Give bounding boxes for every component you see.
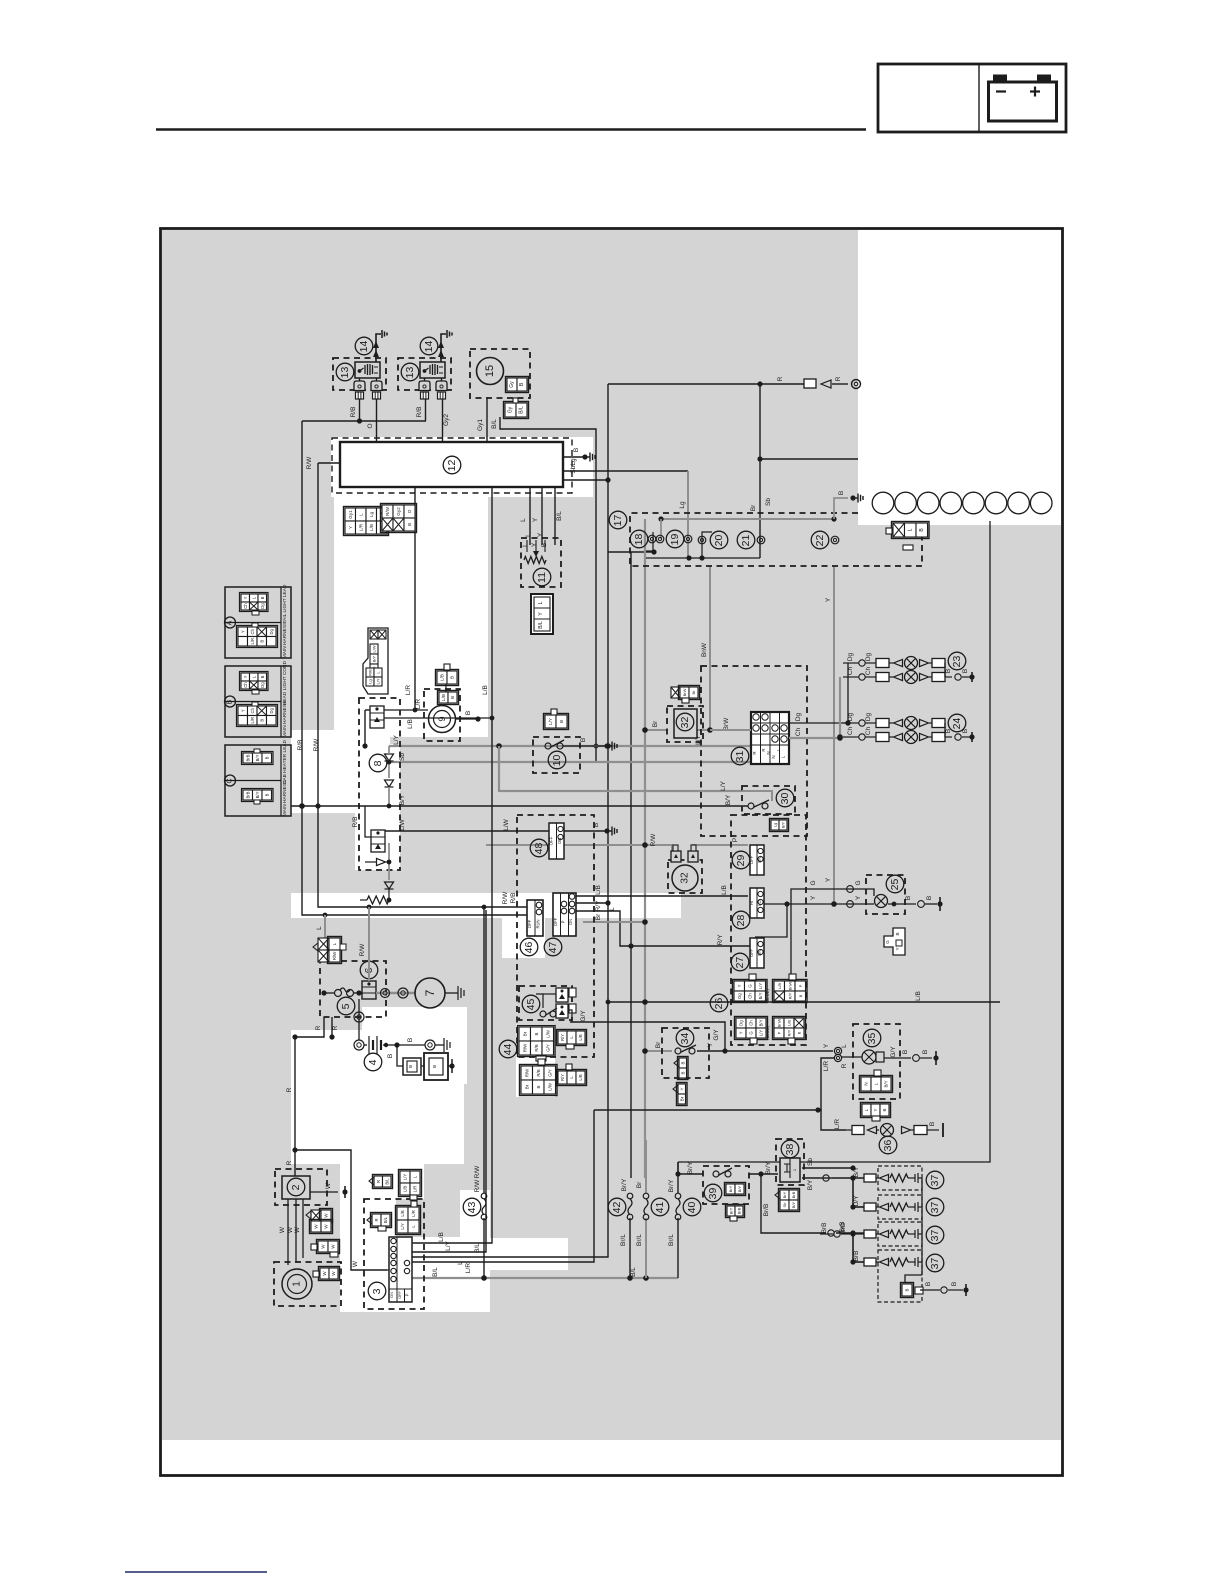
svg-text:36: 36: [882, 1140, 894, 1152]
svg-text:Ch: Ch: [243, 682, 248, 688]
svg-text:L: L: [520, 518, 527, 522]
svg-text:42: 42: [611, 1202, 623, 1214]
svg-text:B/L: B/L: [630, 1267, 637, 1277]
svg-text:Dg: Dg: [269, 628, 274, 634]
sidestand switch 10: [533, 737, 580, 773]
svg-text:W: W: [287, 1226, 294, 1233]
svg-text:L/W: L/W: [545, 1029, 550, 1038]
svg-text:R: R: [286, 1087, 293, 1092]
svg-text:B: B: [407, 1038, 414, 1042]
svg-text:L: L: [457, 1261, 464, 1265]
svg-text:B: B: [925, 1282, 932, 1286]
wire B/L gray bottom bus: [412, 1277, 678, 1279]
svg-text:L/R: L/R: [358, 523, 363, 531]
svg-text:Br: Br: [595, 913, 602, 920]
svg-text:Y: Y: [537, 532, 544, 537]
svg-text:L/Y: L/Y: [758, 983, 763, 989]
svg-text:G: G: [885, 940, 890, 944]
svg-text:L: L: [358, 513, 363, 516]
svg-text:Br: Br: [750, 504, 757, 511]
relay 8 wires to 9: [384, 709, 428, 711]
white cutout left column (R wire): [291, 1030, 396, 1164]
svg-text:O: O: [407, 509, 412, 513]
svg-text:Gy2: Gy2: [443, 414, 450, 426]
relay 8 diode low: [377, 858, 386, 865]
svg-text:Br: Br: [636, 1181, 643, 1188]
svg-text:37: 37: [929, 1258, 941, 1270]
wire battery B down right side: [759, 384, 761, 459]
svg-text:Y: Y: [855, 895, 862, 900]
svg-text:7: 7: [423, 989, 437, 996]
main switch grid: [389, 1237, 412, 1302]
svg-text:B: B: [797, 1031, 802, 1034]
white patch behind switch 46: [502, 893, 545, 958]
main switch 3: [364, 1199, 424, 1309]
svg-text:Br: Br: [679, 1096, 684, 1101]
svg-text:L/B: L/B: [578, 1074, 583, 1080]
wire G/Y lighting: [570, 1022, 725, 1051]
svg-text:R: R: [761, 748, 766, 751]
svg-text:L: L: [538, 601, 544, 604]
svg-text:B/L: B/L: [491, 419, 498, 429]
svg-text:Ch: Ch: [243, 603, 248, 609]
wire L/W bus: [375, 830, 549, 832]
svg-text:P: P: [405, 1293, 410, 1296]
svg-text:BrW: BrW: [682, 688, 687, 696]
svg-text:ON: ON: [568, 919, 573, 925]
svg-text:B/L: B/L: [384, 1178, 389, 1185]
turn signal grounds: [945, 676, 952, 678]
wire ECU right pin B: [563, 456, 585, 458]
wire ECU right pin Lg: [563, 470, 688, 472]
svg-text:25: 25: [889, 879, 901, 891]
svg-text:Dg: Dg: [865, 652, 872, 661]
svg-text:15: 15: [484, 365, 496, 377]
main harness connector small below 44: [558, 1071, 567, 1084]
svg-text:30: 30: [779, 793, 791, 805]
meter assembly dashed box 31: [701, 666, 807, 836]
wire 17 internal gray: [661, 518, 834, 520]
svg-text:B: B: [259, 719, 264, 722]
svg-text:OFF: OFF: [749, 948, 754, 957]
svg-text:27: 27: [734, 957, 746, 969]
svg-text:L/W: L/W: [547, 1082, 552, 1091]
wire switch34 row: [645, 1050, 672, 1052]
svg-text:37: 37: [929, 1230, 941, 1242]
svg-text:Br: Br: [691, 690, 696, 695]
magneto 1: [274, 1262, 341, 1306]
wire R/B vertical left: [301, 421, 303, 806]
headlight row 37b: [853, 1206, 864, 1208]
svg-text:R/B: R/B: [352, 817, 359, 828]
svg-text:R/Y: R/Y: [717, 934, 724, 946]
fuse 41: [651, 1198, 669, 1216]
wire ECU left pin R/W: [318, 462, 340, 464]
svg-text:11: 11: [536, 572, 548, 583]
wire horizontal top R/B feed: [302, 420, 426, 422]
svg-text:N: N: [766, 751, 771, 754]
battery legend box: [878, 64, 1066, 132]
spark plug 14 (right): [441, 334, 446, 362]
svg-text:B: B: [227, 699, 234, 704]
svg-text:Ch: Ch: [865, 726, 872, 735]
svg-text:L/B: L/B: [595, 885, 602, 895]
svg-text:Y: Y: [825, 597, 832, 602]
horn switch 27: [731, 953, 749, 971]
svg-text:OFF: OFF: [553, 917, 558, 926]
svg-text:Y: Y: [679, 1087, 684, 1090]
wire Lg down to relay box: [687, 471, 689, 558]
svg-text:B: B: [580, 738, 587, 742]
starter relay 9: [424, 689, 460, 741]
svg-text:L: L: [525, 533, 532, 537]
svg-text:G: G: [810, 880, 817, 885]
svg-text:32: 32: [679, 717, 691, 729]
wire ECU right pin Sb: [563, 479, 608, 481]
svg-text:L/Y: L/Y: [400, 1223, 405, 1229]
svg-text:B/Y: B/Y: [853, 1166, 860, 1177]
svg-text:L/R: L/R: [250, 638, 255, 645]
svg-text:L: L: [841, 1044, 848, 1048]
svg-text:R/B: R/B: [536, 1069, 541, 1076]
svg-text:W: W: [294, 1226, 301, 1233]
svg-text:Br/Y: Br/Y: [621, 1178, 628, 1191]
row of condition circles (legend): [872, 492, 894, 514]
svg-text:BrB: BrB: [821, 1223, 828, 1234]
svg-text:HI: HI: [749, 901, 754, 905]
svg-text:L/B: L/B: [721, 885, 728, 895]
tall connector stack (headlight coupler): [363, 628, 388, 694]
svg-text:35: 35: [866, 1033, 878, 1045]
meter connector grid: [751, 712, 789, 764]
svg-text:37: 37: [929, 1175, 941, 1187]
lighting switch 47: [544, 938, 562, 956]
svg-text:G/Y: G/Y: [890, 1046, 897, 1058]
wire vertical gray bus x645: [644, 519, 646, 1178]
wire R/W vertical left: [317, 463, 319, 806]
svg-text:B/Y: B/Y: [255, 791, 260, 798]
svg-text:B/Y: B/Y: [791, 1201, 796, 1208]
svg-text:BrY: BrY: [782, 1191, 787, 1198]
svg-text:P: P: [798, 984, 803, 987]
relay 20: [698, 536, 706, 544]
wire L/W switch48 to B: [564, 830, 607, 832]
connector above relay 32: [671, 687, 680, 698]
svg-text:B: B: [559, 720, 564, 723]
relay 8 diode top: [385, 754, 394, 761]
svg-text:(BLUE): (BLUE): [765, 989, 770, 1003]
svg-text:L/Y: L/Y: [720, 780, 727, 790]
connector below 30: [771, 820, 779, 830]
svg-text:29: 29: [735, 855, 747, 867]
svg-text:Br/Y: Br/Y: [765, 1161, 772, 1174]
svg-text:L: L: [522, 543, 529, 547]
svg-text:B: B: [680, 1071, 685, 1074]
svg-text:B/Y: B/Y: [758, 992, 763, 999]
svg-text:W: W: [325, 1182, 332, 1189]
svg-text:L/Y: L/Y: [393, 734, 400, 744]
svg-text:17: 17: [612, 515, 624, 527]
svg-text:L: L: [609, 907, 616, 911]
dimmer switch 28: [732, 911, 750, 929]
svg-text:B: B: [450, 676, 455, 679]
wire R/W horn feed: [486, 845, 672, 851]
relay 6 to motor wire: [376, 992, 415, 994]
svg-text:B: B: [962, 669, 969, 673]
svg-text:Y: Y: [895, 947, 900, 950]
meter light unit 35: [853, 1024, 900, 1099]
svg-text:OFF: OFF: [549, 836, 554, 845]
L riser to X connector: [324, 915, 326, 938]
svg-text:BrW: BrW: [723, 717, 730, 731]
svg-text:Sb: Sb: [765, 498, 772, 506]
svg-text:Y: Y: [538, 612, 544, 616]
svg-text:8: 8: [372, 760, 384, 766]
svg-text:Ch: Ch: [795, 727, 802, 736]
svg-text:G/Y: G/Y: [547, 1069, 552, 1077]
svg-text:R: R: [777, 376, 784, 381]
svg-text:BrB: BrB: [245, 791, 250, 798]
svg-text:B/Y: B/Y: [372, 655, 377, 662]
svg-text:B/Y: B/Y: [737, 1185, 742, 1192]
svg-text:B: B: [945, 669, 952, 673]
connector 2x2 above 3: [397, 1207, 408, 1220]
white band under harness wires: [291, 893, 681, 918]
svg-text:B/L: B/L: [474, 1243, 481, 1253]
wire L/Y branch to meter: [499, 746, 742, 791]
svg-text:B: B: [882, 1108, 887, 1111]
svg-text:B: B: [264, 756, 269, 759]
spark plug 14 (left): [376, 334, 381, 362]
svg-text:Y: Y: [348, 526, 353, 529]
main diagram border: [161, 229, 1063, 1476]
svg-text:R/W: R/W: [359, 943, 366, 957]
turn signal right 23: [948, 652, 966, 670]
wire R magneto riser: [294, 1037, 296, 1150]
white cutout fuse 43 band: [460, 1190, 490, 1242]
wire Br relay32 row: [645, 729, 668, 731]
svg-text:Y: Y: [240, 630, 245, 633]
svg-text:L/W: L/W: [372, 645, 377, 652]
svg-text:B: B: [945, 729, 952, 733]
svg-text:2: 2: [290, 1184, 302, 1190]
main fuse holder: [397, 1045, 403, 1066]
harness connector group B (head light cord): [225, 666, 291, 737]
relay 19: [666, 530, 684, 548]
svg-text:B/Y: B/Y: [807, 1179, 814, 1190]
connector block under ECU left: [345, 508, 356, 521]
svg-text:Sb: Sb: [782, 1202, 787, 1208]
svg-text:B: B: [541, 543, 548, 547]
horn 32: [668, 860, 702, 893]
svg-text:14: 14: [358, 341, 370, 353]
wire coil feeds: [359, 399, 361, 421]
svg-text:10: 10: [551, 755, 563, 767]
svg-text:B: B: [929, 1122, 936, 1126]
svg-text:BrB: BrB: [737, 1207, 742, 1214]
svg-text:B: B: [680, 1061, 685, 1064]
svg-text:R: R: [752, 751, 757, 754]
svg-text:Br/L: Br/L: [620, 1234, 627, 1246]
wire L/B horn bottom bus: [608, 1001, 645, 1003]
svg-text:L/B: L/B: [777, 983, 782, 989]
svg-text:G: G: [749, 1031, 754, 1034]
white cutout top-right: [858, 230, 1061, 525]
svg-text:B/Y: B/Y: [255, 754, 260, 761]
svg-text:B: B: [408, 1065, 413, 1068]
svg-text:R/Y: R/Y: [560, 1034, 565, 1041]
svg-text:B/L: B/L: [383, 1216, 388, 1223]
svg-text:Y: Y: [739, 1031, 744, 1034]
svg-text:P: P: [732, 838, 739, 842]
connector Y Br below 34: [678, 1084, 686, 1094]
svg-text:24: 24: [951, 718, 963, 730]
fuse 43: [463, 1198, 481, 1216]
svg-text:Ch: Ch: [847, 726, 854, 735]
svg-text:45: 45: [525, 999, 537, 1011]
connector X R R/W L: [318, 938, 329, 950]
svg-text:B: B: [534, 1032, 539, 1035]
svg-text:Ch: Ch: [749, 1020, 754, 1026]
relay 18: [630, 530, 648, 548]
fuse 40: [683, 1198, 701, 1216]
svg-text:G/Y: G/Y: [713, 1029, 720, 1041]
wire Br/B headlight rows: [836, 1232, 853, 1234]
svg-text:BrY: BrY: [728, 1185, 733, 1192]
svg-text:L/B: L/B: [369, 524, 374, 531]
svg-text:R/B: R/B: [416, 407, 423, 418]
svg-text:R: R: [374, 1218, 379, 1221]
svg-text:MAIN HARNESS: MAIN HARNESS: [282, 701, 288, 738]
main harness connector below 44: [521, 1066, 533, 1080]
svg-text:Ch: Ch: [747, 993, 752, 999]
wire B right side down x990: [678, 521, 990, 1162]
tail light 36: [879, 1136, 897, 1154]
white cutout battery area: [362, 1007, 467, 1084]
handlebar switch connector 44: [499, 1040, 517, 1058]
fuse 42: [608, 1198, 626, 1216]
svg-text:39: 39: [707, 1188, 719, 1200]
wire Br relay45: [583, 921, 645, 923]
switch connector 26 (lower pair): [736, 1018, 746, 1028]
svg-text:L/B: L/B: [787, 1020, 792, 1026]
svg-text:B/L: B/L: [556, 511, 563, 521]
svg-text:Ch: Ch: [250, 628, 255, 634]
svg-text:G/Y: G/Y: [580, 1010, 587, 1022]
svg-text:G/Y: G/Y: [545, 1044, 550, 1052]
white cutout magneto/main-switch area: [340, 1164, 396, 1312]
ECU unit 12: [332, 438, 572, 493]
svg-text:L/R: L/R: [250, 717, 255, 724]
relay 8 resistor bottom: [367, 896, 389, 904]
svg-text:RUN: RUN: [536, 919, 541, 928]
relay 8 lower coil connector: [371, 830, 385, 852]
svg-text:BnW: BnW: [787, 981, 792, 990]
meter light bulb: [862, 1050, 876, 1064]
svg-text:OFF: OFF: [398, 1291, 402, 1299]
wire L mid: [575, 902, 608, 904]
svg-text:Y: Y: [531, 542, 538, 547]
svg-text:L/R: L/R: [413, 1186, 418, 1193]
svg-text:Sb: Sb: [807, 1158, 814, 1166]
svg-text:B: B: [962, 729, 969, 733]
wire R pair from relay 5: [295, 1017, 324, 1037]
svg-text:L/B: L/B: [441, 694, 446, 701]
svg-text:CAB HEATER LEAD: CAB HEATER LEAD: [282, 739, 288, 784]
connector R B/L top: [374, 1176, 383, 1187]
connector L/B B above 9: [437, 671, 447, 684]
wire Sb bus gray: [389, 761, 760, 763]
svg-text:32: 32: [680, 872, 691, 884]
svg-text:L/B: L/B: [482, 685, 489, 695]
svg-text:Gy2: Gy2: [396, 507, 401, 516]
svg-text:R/B: R/B: [510, 893, 517, 904]
svg-text:Lg: Lg: [369, 512, 374, 518]
svg-text:Br/Y: Br/Y: [668, 1179, 675, 1192]
svg-text:R/W: R/W: [650, 833, 657, 847]
wire vertical trunk x608: [412, 384, 608, 1257]
svg-text:BrD: BrD: [840, 1222, 847, 1234]
flasher relay 32: [667, 706, 703, 742]
svg-text:R: R: [332, 1025, 339, 1030]
svg-text:34: 34: [679, 1033, 691, 1045]
connector L/B B inside 9 box: [439, 692, 448, 703]
meter illumination switch 30: [742, 786, 795, 814]
relay 8 diode mid: [385, 780, 394, 787]
handlebar switch (right) outer dashed box: [731, 815, 806, 1045]
svg-text:Dg: Dg: [737, 993, 742, 999]
svg-text:Y: Y: [823, 1043, 830, 1048]
meter wires Dg Ch: [789, 722, 848, 724]
connector W W low: [320, 1268, 329, 1279]
diode unit 38: [776, 1139, 804, 1185]
ignition coil 13 (left): [333, 358, 386, 390]
svg-text:Br: Br: [655, 1041, 662, 1048]
svg-text:B/Y: B/Y: [725, 794, 732, 805]
svg-text:G: G: [747, 984, 752, 987]
starter relay unit 5/6: [320, 961, 386, 1017]
svg-text:O: O: [367, 423, 374, 428]
svg-text:Lg: Lg: [679, 501, 686, 509]
svg-text:L/Y: L/Y: [445, 1240, 452, 1250]
svg-text:B/L: B/L: [432, 1267, 439, 1277]
svg-text:B: B: [260, 675, 265, 678]
svg-text:Br/B: Br/B: [763, 1204, 770, 1217]
svg-text:G: G: [855, 880, 862, 885]
lamp 25 Y feed: [758, 903, 874, 905]
ignition coil 13 (right): [398, 358, 451, 390]
wire Gy1 from CDI magneto: [486, 398, 488, 444]
lamp 25 G feed: [791, 889, 874, 974]
svg-text:R: R: [286, 1160, 293, 1165]
svg-text:4: 4: [367, 1059, 379, 1065]
svg-text:26: 26: [713, 998, 725, 1010]
connector Gy/B/L below 15: [505, 403, 516, 417]
svg-text:L/B: L/B: [438, 1232, 445, 1242]
svg-text:A: A: [227, 620, 234, 625]
connector L Y B/L below 11: [531, 594, 553, 634]
relay 22: [811, 531, 829, 549]
handlebar switch (left) outer dashed box: [517, 815, 594, 1057]
dimmer/pass switch 34: [662, 1028, 709, 1078]
svg-text:3: 3: [371, 1288, 383, 1294]
svg-text:B/Y: B/Y: [759, 1019, 764, 1026]
svg-text:L/B: L/B: [915, 991, 922, 1001]
svg-text:40: 40: [686, 1202, 698, 1214]
svg-text:41: 41: [654, 1202, 666, 1214]
svg-text:R/Y: R/Y: [787, 1029, 792, 1036]
svg-text:Y: Y: [243, 675, 248, 678]
